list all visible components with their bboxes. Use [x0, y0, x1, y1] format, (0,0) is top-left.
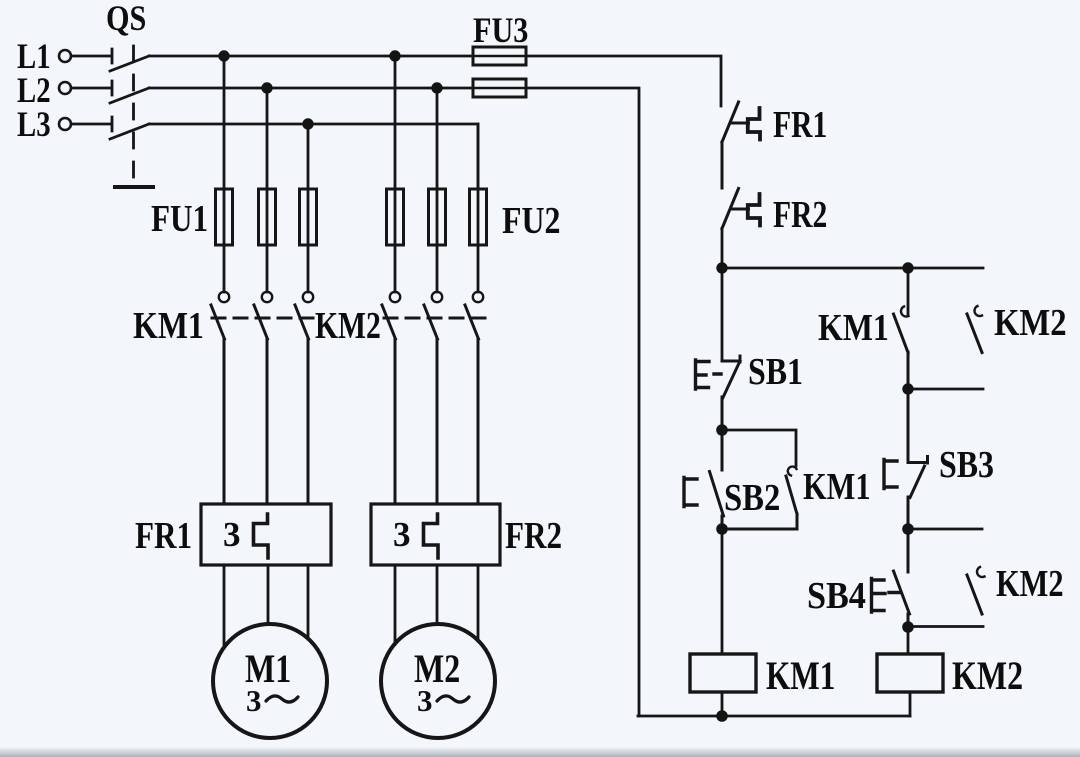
svg-text:KM1: KM1 — [803, 466, 871, 508]
svg-text:SB4: SB4 — [807, 574, 866, 616]
svg-text:SB1: SB1 — [748, 350, 803, 392]
svg-text:3: 3 — [246, 683, 262, 718]
svg-text:SB2: SB2 — [724, 476, 780, 519]
svg-text:FR1: FR1 — [135, 514, 192, 557]
svg-text:KM2: KM2 — [996, 563, 1064, 605]
svg-text:FU2: FU2 — [502, 199, 560, 241]
svg-text:FR1: FR1 — [773, 105, 827, 146]
svg-text:3: 3 — [223, 515, 241, 554]
svg-text:L3: L3 — [17, 105, 51, 145]
svg-text:SB3: SB3 — [939, 443, 994, 485]
svg-text:KM1: KM1 — [766, 653, 835, 698]
svg-text:KM1: KM1 — [133, 304, 204, 346]
svg-text:FR2: FR2 — [773, 195, 827, 236]
svg-text:KM1: KM1 — [818, 306, 889, 348]
svg-text:3: 3 — [393, 515, 411, 554]
svg-text:QS: QS — [106, 0, 146, 39]
svg-text:FR2: FR2 — [505, 514, 562, 557]
svg-text:FU3: FU3 — [473, 11, 528, 51]
svg-text:FU1: FU1 — [151, 197, 208, 240]
svg-text:KM2: KM2 — [952, 654, 1023, 698]
svg-text:KM2: KM2 — [315, 306, 381, 347]
svg-text:3: 3 — [417, 683, 433, 718]
svg-text:KM2: KM2 — [994, 301, 1067, 344]
